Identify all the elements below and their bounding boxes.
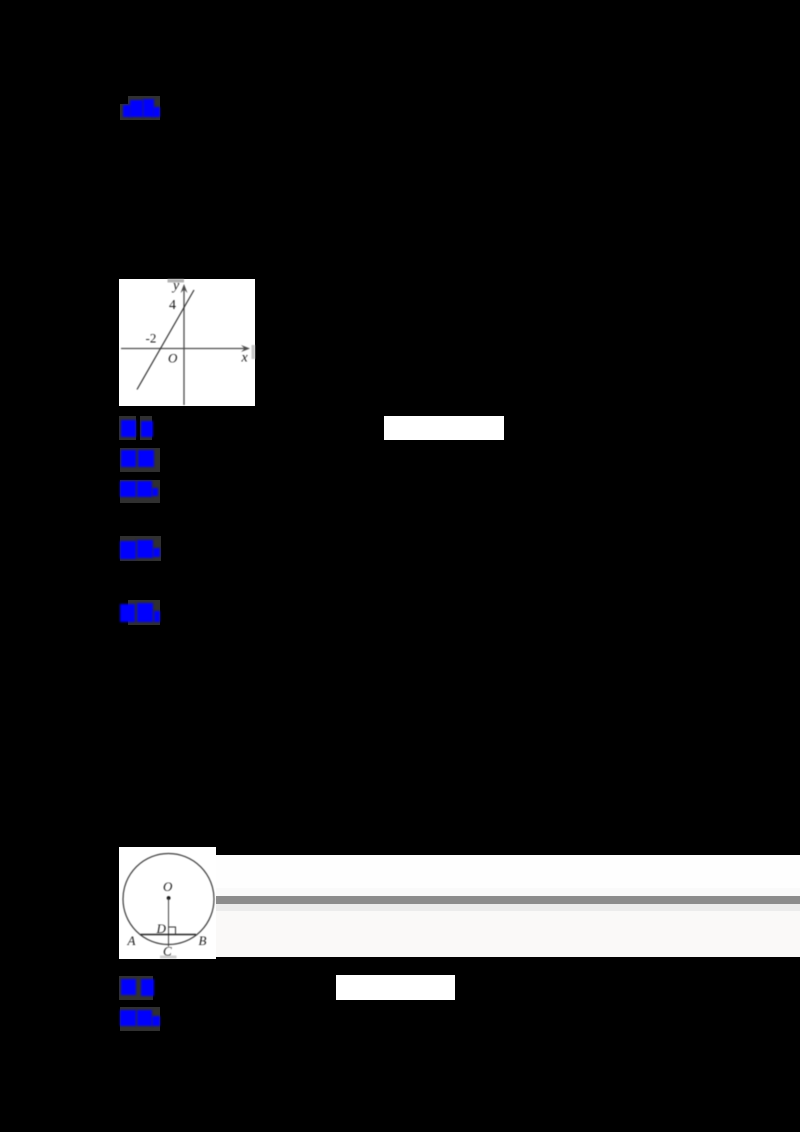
svg-text:A: A [127, 933, 136, 948]
radius line O to C [168, 898, 170, 947]
circle figure image (circle O with chord AB) [119, 847, 216, 959]
graph figure image (line y=2x+4 on axes) [119, 279, 255, 406]
blue label 分析 (bottom row 2) [120, 1007, 160, 1031]
svg-text:4: 4 [169, 298, 176, 313]
y axis [183, 287, 185, 405]
center dot [167, 896, 171, 900]
svg-text:O: O [163, 879, 173, 894]
blue label 考点 (bottom row 1) [119, 976, 153, 1000]
white answer bar 2 [336, 975, 455, 1000]
gray tab top [168, 279, 185, 283]
svg-text:D: D [156, 921, 167, 936]
svg-text:B: B [199, 933, 207, 948]
x axis [121, 348, 248, 350]
white answer bar 1 [384, 416, 504, 440]
circle O [123, 854, 214, 945]
blue label 分析 (row 3) [120, 480, 160, 503]
blue label 点评 (row 5) [128, 600, 160, 625]
light band across page [215, 855, 800, 888]
svg-text:-2: -2 [146, 331, 157, 346]
answer highlight 1 (blue formula on dark box, top) [128, 96, 160, 120]
blue label 专题 (row 2) [120, 448, 160, 472]
svg-text:O: O [168, 351, 178, 366]
gray tab right [252, 345, 256, 359]
blue label 解答 (row 4) [120, 536, 161, 561]
chord AB [141, 934, 197, 936]
svg-text:y: y [171, 279, 180, 294]
blue label 考点 (row 1) [119, 416, 136, 440]
line through (-2,0),(0,4) [137, 290, 194, 390]
gray stripe of band [215, 896, 800, 904]
gray smudge under C [160, 956, 177, 959]
right angle mark at D [169, 927, 176, 935]
svg-text:x: x [241, 351, 249, 366]
